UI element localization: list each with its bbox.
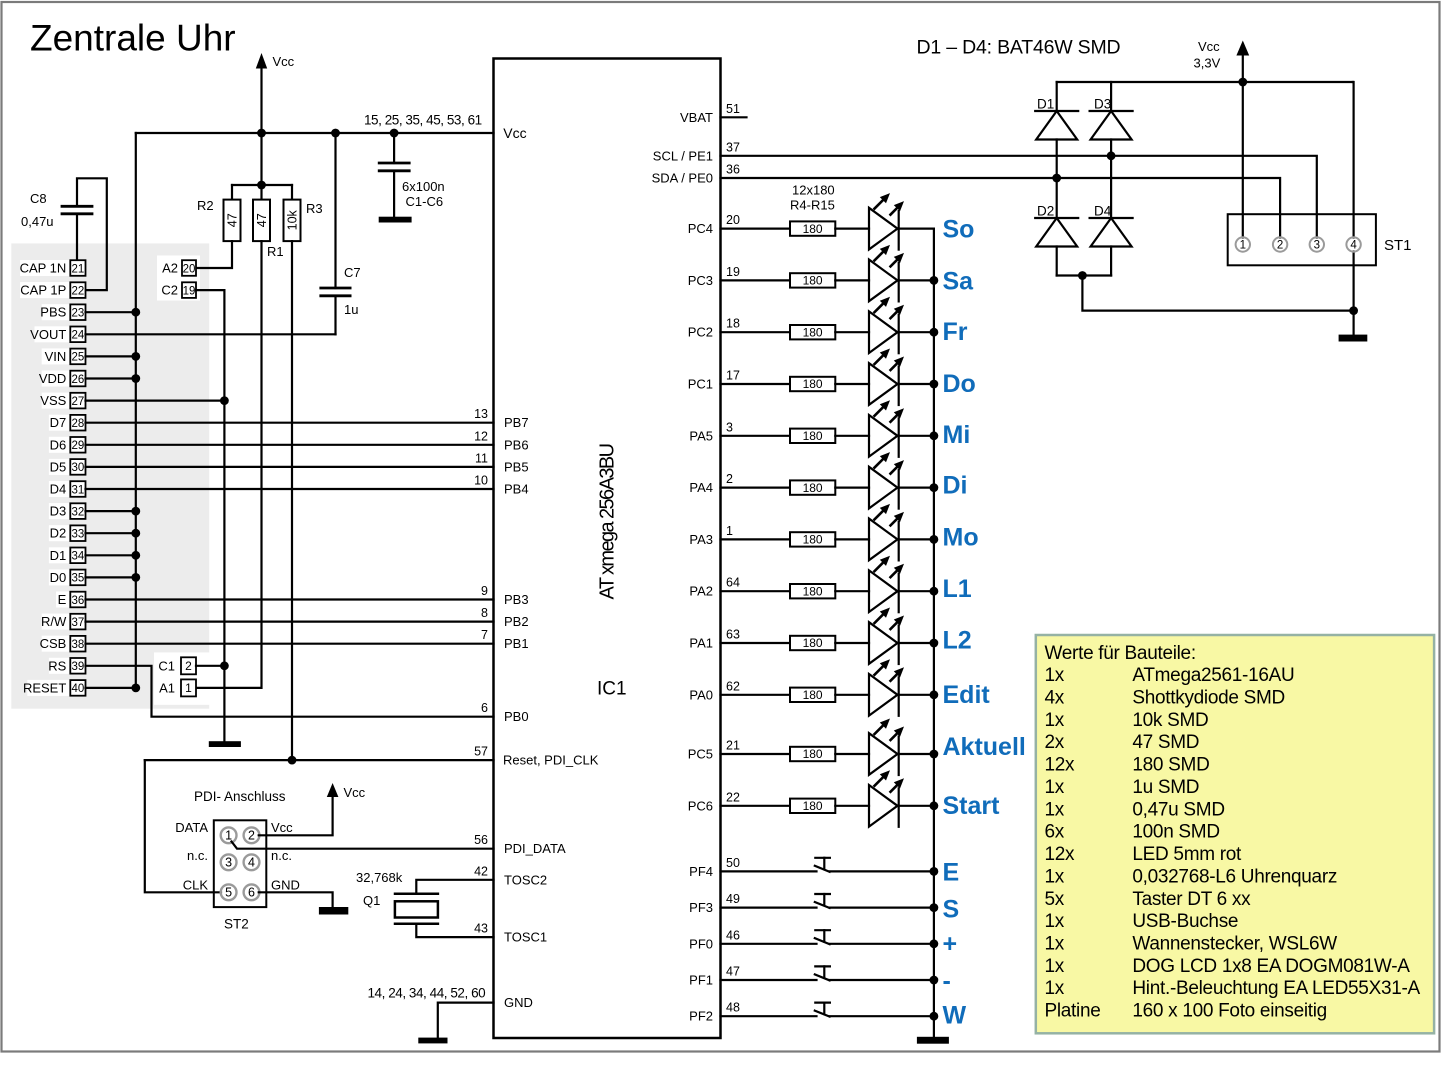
- svg-text:Zentrale Uhr: Zentrale Uhr: [30, 18, 236, 59]
- svg-text:180: 180: [803, 747, 823, 761]
- svg-text:PB4: PB4: [504, 482, 529, 497]
- svg-text:7: 7: [481, 628, 488, 642]
- svg-text:1x: 1x: [1045, 665, 1065, 686]
- svg-text:PB3: PB3: [504, 592, 529, 607]
- svg-text:VOUT: VOUT: [30, 327, 66, 342]
- svg-text:SCL / PE1: SCL / PE1: [653, 148, 713, 163]
- svg-text:180: 180: [803, 584, 823, 598]
- svg-text:5x: 5x: [1045, 889, 1065, 910]
- svg-text:3,3V: 3,3V: [1194, 56, 1221, 71]
- svg-text:48: 48: [726, 1001, 740, 1015]
- svg-text:PC1: PC1: [688, 377, 713, 392]
- svg-text:26: 26: [72, 374, 85, 386]
- svg-text:180: 180: [803, 481, 823, 495]
- svg-text:D2: D2: [50, 526, 67, 541]
- svg-text:32,768k: 32,768k: [356, 870, 403, 885]
- svg-text:1: 1: [726, 524, 733, 538]
- svg-text:47 SMD: 47 SMD: [1132, 732, 1199, 753]
- svg-text:12x180: 12x180: [792, 183, 835, 198]
- svg-text:12x: 12x: [1045, 844, 1076, 865]
- svg-text:So: So: [943, 216, 975, 244]
- svg-text:PDI_DATA: PDI_DATA: [504, 841, 566, 856]
- svg-text:PB0: PB0: [504, 709, 529, 724]
- svg-text:49: 49: [726, 892, 740, 906]
- svg-text:USB-Buchse: USB-Buchse: [1132, 911, 1238, 932]
- svg-text:180: 180: [803, 429, 823, 443]
- svg-text:2x: 2x: [1045, 732, 1065, 753]
- svg-text:PB5: PB5: [504, 459, 529, 474]
- svg-text:PB2: PB2: [504, 614, 529, 629]
- svg-text:180: 180: [803, 377, 823, 391]
- svg-text:D0: D0: [50, 570, 67, 585]
- svg-text:17: 17: [726, 369, 740, 383]
- svg-text:+: +: [943, 930, 958, 958]
- svg-text:D1 – D4: BAT46W SMD: D1 – D4: BAT46W SMD: [917, 37, 1121, 59]
- svg-text:19: 19: [726, 265, 740, 279]
- svg-text:21: 21: [72, 263, 85, 275]
- svg-text:n.c.: n.c.: [187, 848, 208, 863]
- svg-text:L1: L1: [943, 575, 972, 603]
- svg-text:Fr: Fr: [943, 318, 968, 346]
- svg-text:PB1: PB1: [504, 636, 529, 651]
- svg-text:A2: A2: [162, 261, 178, 276]
- svg-text:160 x 100 Foto einseitig: 160 x 100 Foto einseitig: [1132, 1001, 1327, 1022]
- svg-text:32: 32: [72, 506, 85, 518]
- svg-text:8: 8: [481, 606, 488, 620]
- svg-text:W: W: [943, 1002, 967, 1030]
- svg-text:Mi: Mi: [943, 421, 971, 449]
- svg-text:31: 31: [72, 484, 85, 496]
- svg-text:12: 12: [474, 429, 488, 443]
- svg-text:19: 19: [183, 285, 196, 297]
- svg-text:RS: RS: [48, 658, 66, 673]
- svg-text:1x: 1x: [1045, 956, 1065, 977]
- svg-text:ST2: ST2: [224, 917, 249, 932]
- svg-text:PF2: PF2: [689, 1009, 713, 1024]
- svg-text:PF3: PF3: [689, 900, 713, 915]
- svg-text:VSS: VSS: [40, 393, 66, 408]
- svg-text:9: 9: [481, 584, 488, 598]
- svg-text:64: 64: [726, 576, 740, 590]
- svg-text:1x: 1x: [1045, 934, 1065, 955]
- svg-text:Taster DT 6 xx: Taster DT 6 xx: [1132, 889, 1251, 910]
- svg-text:35: 35: [72, 573, 85, 585]
- svg-text:46: 46: [726, 928, 740, 942]
- svg-text:13: 13: [474, 407, 488, 421]
- svg-text:3: 3: [1314, 240, 1320, 252]
- svg-text:57: 57: [474, 745, 488, 759]
- svg-text:PB6: PB6: [504, 437, 529, 452]
- svg-text:1x: 1x: [1045, 777, 1065, 798]
- svg-text:PBS: PBS: [40, 305, 66, 320]
- svg-text:180: 180: [803, 799, 823, 813]
- svg-text:Sa: Sa: [943, 267, 975, 295]
- svg-text:AT xmega 256A3BU: AT xmega 256A3BU: [597, 444, 619, 599]
- svg-text:D1: D1: [1037, 97, 1054, 112]
- svg-text:PA2: PA2: [689, 584, 713, 599]
- svg-text:33: 33: [72, 529, 85, 541]
- svg-text:0,032768-L6 Uhrenquarz: 0,032768-L6 Uhrenquarz: [1132, 866, 1337, 887]
- svg-text:6: 6: [248, 886, 255, 900]
- svg-text:37: 37: [726, 140, 740, 154]
- svg-text:D5: D5: [50, 459, 67, 474]
- svg-text:2: 2: [248, 829, 255, 843]
- svg-text:43: 43: [474, 922, 488, 936]
- svg-text:LED 5mm rot: LED 5mm rot: [1132, 844, 1242, 865]
- svg-text:L2: L2: [943, 627, 972, 655]
- svg-text:VDD: VDD: [39, 371, 66, 386]
- svg-text:RESET: RESET: [23, 680, 66, 695]
- svg-text:20: 20: [726, 213, 740, 227]
- svg-text:2: 2: [1277, 240, 1283, 252]
- svg-text:-: -: [943, 967, 951, 995]
- svg-text:R2: R2: [197, 198, 214, 213]
- svg-text:1x: 1x: [1045, 978, 1065, 999]
- svg-text:1x: 1x: [1045, 866, 1065, 887]
- svg-text:23: 23: [72, 308, 85, 320]
- svg-text:PC5: PC5: [688, 747, 713, 762]
- svg-text:R1: R1: [267, 244, 284, 259]
- svg-text:GND: GND: [271, 878, 300, 893]
- svg-text:D4: D4: [1094, 204, 1112, 219]
- svg-text:CLK: CLK: [183, 878, 209, 893]
- svg-text:180: 180: [803, 636, 823, 650]
- svg-text:Vcc: Vcc: [273, 54, 295, 69]
- svg-text:15, 25, 35, 45, 53, 61: 15, 25, 35, 45, 53, 61: [364, 113, 482, 128]
- svg-text:PC2: PC2: [688, 325, 713, 340]
- svg-text:42: 42: [474, 864, 488, 878]
- svg-text:10: 10: [474, 474, 488, 488]
- svg-text:47: 47: [726, 965, 740, 979]
- svg-text:C1: C1: [158, 658, 175, 673]
- svg-text:30: 30: [72, 462, 85, 474]
- svg-text:R3: R3: [306, 201, 323, 216]
- svg-text:51: 51: [726, 102, 740, 116]
- svg-text:PC6: PC6: [688, 798, 713, 813]
- svg-text:20: 20: [183, 263, 196, 275]
- svg-text:4: 4: [1350, 240, 1357, 252]
- svg-text:GND: GND: [504, 995, 533, 1010]
- svg-text:4x: 4x: [1045, 688, 1065, 709]
- svg-text:IC1: IC1: [597, 679, 627, 700]
- svg-text:PC3: PC3: [688, 273, 713, 288]
- svg-text:C1-C6: C1-C6: [406, 194, 444, 209]
- svg-text:36: 36: [726, 163, 740, 177]
- svg-text:2: 2: [726, 472, 733, 486]
- svg-text:11: 11: [475, 451, 488, 465]
- svg-text:12x: 12x: [1045, 755, 1076, 776]
- svg-text:1u SMD: 1u SMD: [1132, 777, 1199, 798]
- svg-text:Q1: Q1: [363, 893, 380, 908]
- svg-text:39: 39: [72, 661, 85, 673]
- svg-text:n.c.: n.c.: [271, 848, 292, 863]
- svg-text:PA4: PA4: [689, 480, 713, 495]
- svg-text:Mo: Mo: [943, 523, 979, 551]
- svg-text:D1: D1: [50, 548, 67, 563]
- svg-text:0,47u SMD: 0,47u SMD: [1132, 799, 1224, 820]
- svg-text:3: 3: [225, 856, 232, 870]
- svg-text:PA0: PA0: [689, 687, 713, 702]
- svg-text:6x100n: 6x100n: [402, 179, 445, 194]
- svg-text:50: 50: [726, 856, 740, 870]
- svg-text:D2: D2: [1037, 204, 1054, 219]
- svg-text:10k: 10k: [286, 209, 300, 230]
- svg-text:22: 22: [726, 790, 740, 804]
- svg-text:S: S: [943, 896, 960, 924]
- svg-text:180: 180: [803, 688, 823, 702]
- svg-text:Vcc: Vcc: [503, 125, 526, 141]
- svg-text:PA5: PA5: [689, 428, 713, 443]
- svg-text:180: 180: [803, 325, 823, 339]
- svg-text:PF4: PF4: [689, 864, 713, 879]
- svg-text:Wannenstecker, WSL6W: Wannenstecker, WSL6W: [1132, 934, 1337, 955]
- svg-text:180: 180: [803, 533, 823, 547]
- svg-text:Aktuell: Aktuell: [943, 733, 1026, 761]
- svg-text:CAP 1P: CAP 1P: [20, 283, 66, 298]
- svg-text:25: 25: [72, 352, 85, 364]
- svg-text:D4: D4: [50, 482, 67, 497]
- svg-text:C8: C8: [30, 191, 47, 206]
- svg-text:PC4: PC4: [688, 221, 713, 236]
- svg-text:Hint.-Beleuchtung EA LED55X31-: Hint.-Beleuchtung EA LED55X31-A: [1132, 978, 1420, 999]
- svg-text:56: 56: [474, 833, 488, 847]
- svg-text:PDI- Anschluss: PDI- Anschluss: [194, 789, 286, 804]
- svg-text:DOG LCD 1x8 EA DOGM081W-A: DOG LCD 1x8 EA DOGM081W-A: [1132, 956, 1410, 977]
- svg-text:28: 28: [72, 418, 85, 430]
- svg-text:ATmega2561-16AU: ATmega2561-16AU: [1132, 665, 1294, 686]
- svg-text:D3: D3: [1094, 97, 1111, 112]
- svg-text:6x: 6x: [1045, 822, 1065, 843]
- svg-text:VIN: VIN: [45, 349, 67, 364]
- svg-text:62: 62: [726, 679, 740, 693]
- svg-text:180 SMD: 180 SMD: [1132, 755, 1209, 776]
- svg-text:34: 34: [72, 551, 85, 563]
- svg-text:A1: A1: [159, 680, 175, 695]
- svg-text:1: 1: [185, 681, 192, 695]
- svg-text:3: 3: [726, 420, 733, 434]
- svg-text:1x: 1x: [1045, 799, 1065, 820]
- svg-text:R4-R15: R4-R15: [790, 198, 835, 213]
- svg-text:CSB: CSB: [40, 636, 67, 651]
- svg-text:Di: Di: [943, 472, 968, 500]
- svg-text:6: 6: [481, 701, 488, 715]
- svg-text:37: 37: [72, 617, 85, 629]
- svg-text:D6: D6: [50, 437, 67, 452]
- svg-text:180: 180: [803, 222, 823, 236]
- svg-text:R/W: R/W: [41, 614, 67, 629]
- svg-text:Do: Do: [943, 370, 976, 398]
- svg-text:D3: D3: [50, 504, 67, 519]
- svg-text:SDA / PE0: SDA / PE0: [652, 171, 713, 186]
- svg-text:29: 29: [72, 440, 85, 452]
- svg-text:TOSC2: TOSC2: [504, 872, 547, 887]
- svg-text:Shottkydiode SMD: Shottkydiode SMD: [1132, 688, 1285, 709]
- svg-text:ST1: ST1: [1384, 237, 1412, 254]
- svg-text:4: 4: [248, 856, 255, 870]
- svg-text:47: 47: [255, 213, 269, 227]
- svg-text:40: 40: [72, 683, 85, 695]
- svg-text:E: E: [943, 858, 960, 886]
- svg-text:1: 1: [1240, 240, 1246, 252]
- svg-text:Vcc: Vcc: [344, 785, 366, 800]
- svg-text:PF0: PF0: [689, 936, 713, 951]
- svg-text:CAP 1N: CAP 1N: [20, 261, 67, 276]
- svg-text:PB7: PB7: [504, 415, 529, 430]
- svg-text:22: 22: [72, 285, 85, 297]
- svg-text:1x: 1x: [1045, 911, 1065, 932]
- svg-text:63: 63: [726, 628, 740, 642]
- svg-text:2: 2: [185, 659, 192, 673]
- svg-text:38: 38: [72, 639, 85, 651]
- svg-text:27: 27: [72, 396, 85, 408]
- svg-text:47: 47: [226, 213, 240, 227]
- svg-text:Start: Start: [943, 792, 1001, 820]
- svg-text:Edit: Edit: [943, 681, 991, 709]
- svg-text:1x: 1x: [1045, 710, 1065, 731]
- svg-text:14, 24, 34, 44, 52, 60: 14, 24, 34, 44, 52, 60: [368, 986, 486, 1001]
- svg-text:21: 21: [726, 739, 740, 753]
- svg-text:36: 36: [72, 595, 85, 607]
- svg-text:180: 180: [803, 274, 823, 288]
- svg-text:100n SMD: 100n SMD: [1132, 822, 1219, 843]
- svg-text:Werte für Bauteile:: Werte für Bauteile:: [1045, 643, 1196, 664]
- svg-text:D7: D7: [50, 415, 67, 430]
- svg-text:E: E: [58, 592, 67, 607]
- svg-text:0,47u: 0,47u: [21, 214, 54, 229]
- svg-text:DATA: DATA: [175, 820, 208, 835]
- svg-text:C7: C7: [344, 265, 361, 280]
- svg-text:Reset, PDI_CLK: Reset, PDI_CLK: [503, 753, 599, 768]
- svg-text:18: 18: [726, 317, 740, 331]
- svg-text:Platine: Platine: [1045, 1001, 1101, 1022]
- svg-text:5: 5: [225, 886, 232, 900]
- svg-text:TOSC1: TOSC1: [504, 930, 547, 945]
- svg-text:Vcc: Vcc: [271, 820, 293, 835]
- svg-text:1u: 1u: [344, 302, 358, 317]
- svg-text:PF1: PF1: [689, 973, 713, 988]
- svg-text:10k SMD: 10k SMD: [1132, 710, 1208, 731]
- svg-text:PA3: PA3: [689, 532, 713, 547]
- svg-text:24: 24: [72, 330, 85, 342]
- svg-text:C2: C2: [161, 283, 178, 298]
- svg-text:VBAT: VBAT: [680, 110, 713, 125]
- svg-text:Vcc: Vcc: [1198, 39, 1220, 54]
- svg-text:PA1: PA1: [689, 636, 713, 651]
